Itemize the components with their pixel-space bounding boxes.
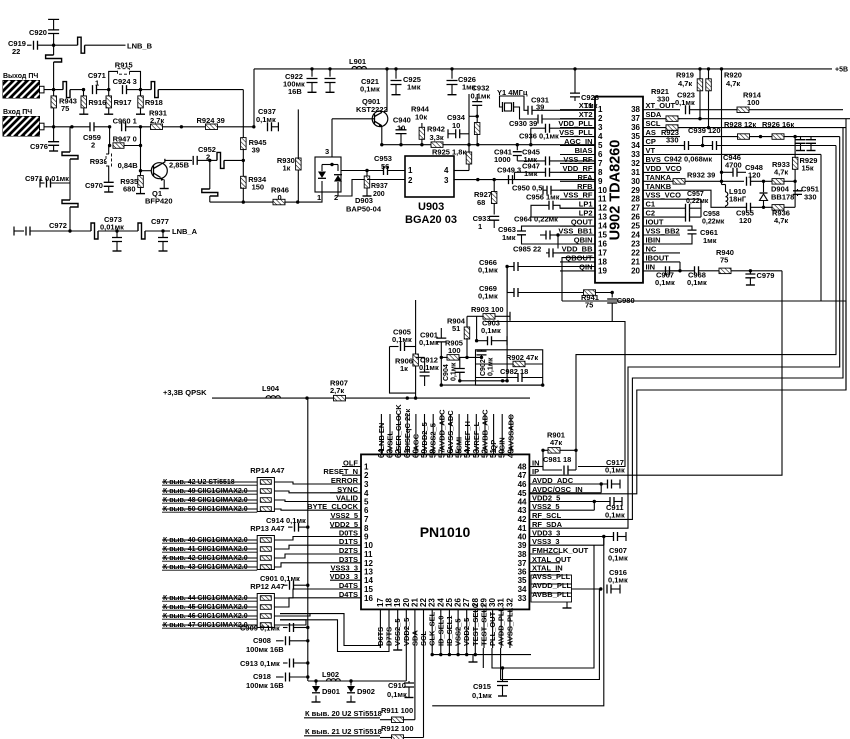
stripline jog <box>63 82 70 98</box>
svg-text:C930 39: C930 39 <box>509 119 537 128</box>
node AGC dots <box>467 143 470 146</box>
svg-text:51: 51 <box>452 324 460 333</box>
svg-text:1: 1 <box>364 463 369 472</box>
svg-text:C939 120: C939 120 <box>688 126 721 135</box>
svg-text:12: 12 <box>598 204 607 213</box>
svg-text:23: 23 <box>631 240 640 249</box>
svg-text:VDD_BB: VDD_BB <box>562 244 593 253</box>
svg-text:1000: 1000 <box>494 155 511 164</box>
svg-text:10: 10 <box>364 541 373 550</box>
SDA column down <box>414 648 416 720</box>
svg-text:100мк 16В: 100мк 16В <box>246 681 284 690</box>
svg-text:34: 34 <box>518 585 527 594</box>
svg-text:10к: 10к <box>415 113 427 122</box>
svg-text:0,1мк: 0,1мк <box>488 357 495 376</box>
svg-text:C920: C920 <box>29 28 47 37</box>
svg-text:2: 2 <box>598 114 603 123</box>
RP12 wires to bottom pins <box>274 614 310 616</box>
wire LNB_B branch down <box>53 45 55 55</box>
svg-text:0,1мк: 0,1мк <box>360 85 380 94</box>
AVDC/OSC_IN row <box>529 492 601 494</box>
node LNB_B junction <box>52 44 55 47</box>
bus vertical R926 row <box>529 137 839 529</box>
svg-text:0,1мк: 0,1мк <box>608 576 628 585</box>
capacitor C972 <box>14 230 24 232</box>
svg-text:16В: 16В <box>288 87 302 96</box>
svg-text:150: 150 <box>252 183 265 192</box>
svg-text:9: 9 <box>364 533 369 542</box>
svg-text:IBIN: IBIN <box>646 236 661 245</box>
svg-text:0,1мк: 0,1мк <box>451 362 458 381</box>
svg-text:0,1мк: 0,1мк <box>419 363 439 372</box>
svg-text:R911 100: R911 100 <box>381 706 413 715</box>
svg-text:QOUT: QOUT <box>571 218 593 227</box>
svg-text:48: 48 <box>518 463 527 472</box>
D903 pin2 wire <box>338 180 367 197</box>
svg-text:41: 41 <box>518 524 527 533</box>
SCL column down <box>423 648 425 738</box>
svg-text:C957: C957 <box>687 191 704 198</box>
svg-text:RP13 A47: RP13 A47 <box>250 524 284 533</box>
svg-text:AVBB_PLL: AVBB_PLL <box>532 590 571 599</box>
svg-text:C960 1: C960 1 <box>113 117 137 126</box>
svg-text:1к: 1к <box>283 164 291 173</box>
svg-text:100: 100 <box>448 346 461 355</box>
svg-text:18: 18 <box>385 598 394 607</box>
wire AGC row <box>382 144 595 146</box>
svg-text:12: 12 <box>364 559 373 568</box>
svg-text:26: 26 <box>631 213 640 222</box>
svg-text:2: 2 <box>91 141 95 150</box>
Q901 base to D903 pin3 <box>332 118 375 120</box>
svg-text:LP1: LP1 <box>579 200 593 209</box>
svg-text:R912 100: R912 100 <box>381 724 414 733</box>
svg-text:10: 10 <box>452 121 460 130</box>
svg-text:14: 14 <box>364 576 373 585</box>
svg-text:22: 22 <box>12 47 20 56</box>
svg-text:C909 0,1мк: C909 0,1мк <box>240 624 280 633</box>
svg-text:R947 0: R947 0 <box>113 135 137 144</box>
wire output row <box>44 89 63 91</box>
wire rail to input row <box>253 69 255 127</box>
svg-text:6: 6 <box>598 150 603 159</box>
svg-text:IBOUT: IBOUT <box>646 253 670 262</box>
svg-text:XT2: XT2 <box>579 110 593 119</box>
svg-text:L902: L902 <box>322 670 339 679</box>
svg-text:RFA: RFA <box>578 173 594 182</box>
svg-text:15: 15 <box>598 231 607 240</box>
svg-text:RFB: RFB <box>577 182 593 191</box>
L902 row <box>308 680 406 682</box>
svg-text:1: 1 <box>478 222 482 231</box>
svg-text:35: 35 <box>518 576 527 585</box>
svg-text:IIN: IIN <box>646 262 656 271</box>
resistor below C932 <box>474 123 480 135</box>
svg-text:30: 30 <box>631 177 640 186</box>
svg-text:11: 11 <box>364 550 373 559</box>
line y705.8 <box>432 537 604 706</box>
bus vertical SCL <box>529 128 843 520</box>
capacitor to ground right 1 <box>800 137 802 139</box>
svg-text:330: 330 <box>666 136 679 145</box>
wire y393 <box>390 347 416 394</box>
svg-text:13: 13 <box>364 568 373 577</box>
svg-text:44: 44 <box>518 498 527 507</box>
svg-text:R917: R917 <box>114 98 132 107</box>
svg-text:VSS_BB1: VSS_BB1 <box>558 227 592 236</box>
svg-text:C910: C910 <box>388 681 406 690</box>
lower tank rail <box>726 206 747 208</box>
svg-text:TANKB: TANKB <box>646 182 672 191</box>
svg-text:C918: C918 <box>253 672 271 681</box>
svg-text:К выв. 20 U2 STi5518: К выв. 20 U2 STi5518 <box>305 709 382 718</box>
svg-text:R903 100: R903 100 <box>471 305 504 314</box>
svg-text:C915: C915 <box>473 682 491 691</box>
svg-text:4,7к: 4,7к <box>678 79 692 88</box>
svg-text:100: 100 <box>747 98 760 107</box>
svg-text:Вход ПЧ: Вход ПЧ <box>3 109 32 116</box>
D903 pin1 to R946 row <box>298 192 322 202</box>
svg-text:75: 75 <box>720 256 728 265</box>
svg-text:L901: L901 <box>349 57 366 66</box>
svg-text:C942 0,068мк: C942 0,068мк <box>664 155 712 164</box>
bus horizontal h2 <box>529 301 846 494</box>
svg-text:8: 8 <box>598 168 603 177</box>
svg-text:R925 1,8к: R925 1,8к <box>432 148 466 157</box>
svg-text:0,1мк: 0,1мк <box>605 466 625 475</box>
wire y380.8 <box>460 380 507 382</box>
svg-text:0,1мк: 0,1мк <box>478 292 498 301</box>
svg-text:RF_SDA: RF_SDA <box>532 520 563 529</box>
svg-text:C958: C958 <box>703 211 720 218</box>
svg-text:R938: R938 <box>90 157 108 166</box>
svg-text:C913 0,1мк: C913 0,1мк <box>240 659 280 668</box>
svg-text:0,84В: 0,84В <box>118 161 139 170</box>
VDD2_5 column to L902 row <box>405 648 407 681</box>
pin19 gnd <box>397 648 399 650</box>
svg-text:5: 5 <box>598 141 603 150</box>
svg-text:R932 39: R932 39 <box>687 171 715 180</box>
IC PN1010 <box>361 454 529 609</box>
svg-text:TANKA: TANKA <box>646 173 672 182</box>
svg-text:1мк: 1мк <box>524 169 538 178</box>
stripline jog <box>117 230 138 232</box>
svg-text:SDA: SDA <box>646 110 662 119</box>
svg-text:PN1010: PN1010 <box>420 524 471 540</box>
svg-text:0,1мк: 0,1мк <box>687 278 707 287</box>
svg-text:RF_SCL: RF_SCL <box>532 511 562 520</box>
RP wrap wires to pins 17/18 <box>280 614 380 648</box>
wire U903 pin2 <box>367 179 405 181</box>
svg-text:3: 3 <box>598 123 603 132</box>
svg-text:100мк 16В: 100мк 16В <box>246 645 284 654</box>
svg-text:19: 19 <box>598 266 607 275</box>
RP12 wires to pins <box>274 589 330 598</box>
wire y385.1 <box>441 384 542 386</box>
svg-text:11: 11 <box>598 195 607 204</box>
svg-text:VSS_VCO: VSS_VCO <box>646 191 682 200</box>
svg-text:1мк: 1мк <box>407 83 421 92</box>
svg-text:C949 3: C949 3 <box>497 166 521 175</box>
diode D903a <box>321 165 323 172</box>
capacitor to ground right 2 <box>810 137 812 139</box>
svg-text:25: 25 <box>631 222 640 231</box>
Q901 emitter to AGC row <box>381 126 383 145</box>
svg-text:U903: U903 <box>418 201 444 213</box>
svg-text:1мк: 1мк <box>703 236 717 245</box>
wire to LNB_A <box>163 230 170 232</box>
Q1 emitter to ground <box>163 180 165 189</box>
svg-text:2,7к: 2,7к <box>330 386 344 395</box>
svg-text:0,1мк: 0,1мк <box>655 278 675 287</box>
svg-text:C924 3: C924 3 <box>113 77 137 86</box>
svg-text:680: 680 <box>123 185 136 194</box>
svg-text:200: 200 <box>373 191 385 198</box>
svg-text:RP12 A47: RP12 A47 <box>250 582 284 591</box>
svg-text:32: 32 <box>505 598 514 607</box>
svg-text:0,01мк: 0,01мк <box>100 223 124 232</box>
svg-text:68: 68 <box>477 198 485 207</box>
svg-text:7: 7 <box>364 515 369 524</box>
svg-text:C977: C977 <box>151 217 169 226</box>
svg-text:IOUT: IOUT <box>646 218 664 227</box>
bus IIN to IP <box>529 271 782 475</box>
svg-text:AVDD_PLL: AVDD_PLL <box>532 581 571 590</box>
ground below PLL box <box>566 602 568 608</box>
svg-text:+5В: +5В <box>835 67 848 74</box>
svg-text:0,1мк: 0,1мк <box>419 338 439 347</box>
svg-text:15: 15 <box>364 585 373 594</box>
svg-text:R918: R918 <box>145 98 163 107</box>
svg-text:VSS_PLL: VSS_PLL <box>559 128 593 137</box>
svg-text:C982 18: C982 18 <box>500 367 528 376</box>
svg-text:4: 4 <box>598 132 603 141</box>
svg-text:0,1мк: 0,1мк <box>481 326 501 335</box>
svg-text:28: 28 <box>631 195 640 204</box>
svg-text:31: 31 <box>497 598 506 607</box>
svg-text:C976: C976 <box>30 142 48 151</box>
stripline jog <box>78 37 85 53</box>
svg-text:9: 9 <box>598 177 603 186</box>
svg-text:+3,3В QPSK: +3,3В QPSK <box>163 388 207 397</box>
svg-text:R915: R915 <box>115 61 133 70</box>
svg-text:QBIN: QBIN <box>574 236 593 245</box>
wire +5V top rail <box>254 68 832 70</box>
svg-text:BAP50-04: BAP50-04 <box>346 205 382 214</box>
svg-text:Выход ПЧ: Выход ПЧ <box>3 73 38 80</box>
svg-text:33: 33 <box>631 150 640 159</box>
wire U903 pin3 row <box>454 179 595 181</box>
svg-text:U902 TDA8260: U902 TDA8260 <box>608 140 624 241</box>
svg-text:4: 4 <box>364 489 369 498</box>
svg-text:4,7к: 4,7к <box>726 79 740 88</box>
svg-text:0,1мк: 0,1мк <box>387 690 407 699</box>
+5V drop to VDD_VCO <box>720 67 723 70</box>
svg-text:27: 27 <box>631 204 640 213</box>
svg-text:39: 39 <box>252 146 260 155</box>
RP14 wires to pins <box>274 482 342 484</box>
svg-text:IP: IP <box>532 467 539 476</box>
svg-text:330: 330 <box>657 95 670 104</box>
svg-text:16: 16 <box>364 594 373 603</box>
svg-text:C902: C902 <box>480 359 487 376</box>
svg-text:2: 2 <box>364 471 369 480</box>
wire U903 pin4 <box>454 170 469 172</box>
svg-text:8: 8 <box>364 524 369 533</box>
svg-text:KST2222: KST2222 <box>356 105 388 114</box>
svg-text:C979: C979 <box>757 271 775 280</box>
svg-text:24: 24 <box>631 231 640 240</box>
svg-text:RP14 A47: RP14 A47 <box>250 466 284 475</box>
VSS_VCO row <box>680 198 701 200</box>
diode D903b <box>337 165 339 172</box>
svg-text:21: 21 <box>631 257 640 266</box>
svg-text:0,22мк: 0,22мк <box>702 219 725 226</box>
svg-text:33: 33 <box>518 594 527 603</box>
svg-text:5: 5 <box>364 498 369 507</box>
svg-text:39: 39 <box>518 541 527 550</box>
svg-text:1к: 1к <box>400 364 408 373</box>
3.3V rail down <box>307 398 309 681</box>
svg-text:QIN: QIN <box>579 262 592 271</box>
svg-text:C936 0,1мк: C936 0,1мк <box>519 132 559 141</box>
svg-text:37: 37 <box>518 559 527 568</box>
svg-text:VSS_RF: VSS_RF <box>563 155 593 164</box>
svg-text:C956 1мк: C956 1мк <box>526 193 560 202</box>
stripline jog <box>210 159 217 161</box>
stripline jog <box>141 89 152 91</box>
svg-text:C908: C908 <box>253 636 271 645</box>
svg-text:AVSS_PLL: AVSS_PLL <box>532 572 571 581</box>
svg-text:LNB_A: LNB_A <box>172 227 198 236</box>
svg-text:R926 16к: R926 16к <box>762 120 794 129</box>
svg-text:0,1мк: 0,1мк <box>392 335 412 344</box>
stripline jog <box>70 230 91 232</box>
svg-text:C985 22: C985 22 <box>513 245 541 254</box>
svg-text:CP: CP <box>646 137 656 146</box>
svg-text:36: 36 <box>518 568 527 577</box>
svg-text:C972: C972 <box>49 221 67 230</box>
svg-text:38: 38 <box>631 105 640 114</box>
svg-text:D902: D902 <box>357 687 375 696</box>
svg-text:C981 18: C981 18 <box>543 455 571 464</box>
svg-text:C914 0,1мк: C914 0,1мк <box>266 516 306 525</box>
bus vertical SDA <box>845 119 847 390</box>
svg-text:38: 38 <box>518 550 527 559</box>
svg-text:0,1мк: 0,1мк <box>605 511 625 520</box>
svg-text:37: 37 <box>631 114 640 123</box>
bus C980 row <box>485 322 625 467</box>
svg-text:10: 10 <box>598 186 607 195</box>
bus vertical CP row <box>576 146 836 451</box>
wire crystal to XT1 via C931 <box>500 96 529 110</box>
svg-text:VDD_RF: VDD_RF <box>562 164 592 173</box>
svg-text:75: 75 <box>585 301 593 310</box>
svg-text:SCL: SCL <box>646 119 661 128</box>
svg-text:C1: C1 <box>646 200 656 209</box>
svg-text:47: 47 <box>518 471 527 480</box>
svg-text:35: 35 <box>631 132 640 141</box>
wire to LNB_B <box>54 44 78 46</box>
svg-text:VDD_VCO: VDD_VCO <box>646 164 682 173</box>
svg-text:0,1мк: 0,1мк <box>608 554 628 563</box>
svg-text:0,1мк: 0,1мк <box>478 266 498 275</box>
svg-text:VSS_BB2: VSS_BB2 <box>646 227 680 236</box>
bus vertical VT row <box>820 154 822 301</box>
svg-text:22: 22 <box>419 598 428 607</box>
svg-text:75: 75 <box>61 104 69 113</box>
wire output row long <box>158 89 243 91</box>
svg-text:45: 45 <box>518 489 527 498</box>
op-amp U903 BGA20 03 <box>405 156 454 197</box>
svg-text:C970: C970 <box>85 181 103 190</box>
svg-text:34: 34 <box>631 141 640 150</box>
svg-text:L904: L904 <box>262 384 280 393</box>
svg-text:14: 14 <box>598 222 607 231</box>
svg-text:AGC_IN: AGC_IN <box>564 137 592 146</box>
svg-text:0,1мк: 0,1мк <box>256 115 276 124</box>
svg-text:3: 3 <box>364 480 369 489</box>
svg-text:36: 36 <box>631 123 640 132</box>
svg-text:VDD_PLL: VDD_PLL <box>558 119 593 128</box>
svg-text:47к: 47к <box>550 438 562 447</box>
svg-text:43: 43 <box>518 506 527 515</box>
svg-text:R902 47к: R902 47к <box>506 353 538 362</box>
wire crystal to XT2 via C930 <box>514 107 539 119</box>
bottom gnd bus <box>432 654 531 656</box>
svg-text:LNB_B: LNB_B <box>127 42 153 51</box>
svg-text:1мк: 1мк <box>502 233 516 242</box>
svg-text:VT: VT <box>646 146 656 155</box>
svg-text:32: 32 <box>631 159 640 168</box>
svg-text:6: 6 <box>364 506 369 515</box>
svg-text:R928 12к: R928 12к <box>724 120 756 129</box>
svg-text:18нГ: 18нГ <box>729 195 747 204</box>
svg-text:120: 120 <box>739 216 752 225</box>
line y668 to C915 <box>492 545 594 668</box>
svg-text:R937: R937 <box>371 183 388 190</box>
svg-text:15к: 15к <box>802 164 814 173</box>
svg-text:C950 0,5: C950 0,5 <box>512 184 542 193</box>
IC U902 TDA8260 <box>595 97 643 283</box>
svg-text:0,1мк: 0,1мк <box>471 92 491 101</box>
svg-text:1: 1 <box>408 166 413 175</box>
svg-text:1мк: 1мк <box>584 101 598 110</box>
svg-text:16: 16 <box>598 240 607 249</box>
svg-text:C964 0,22мк: C964 0,22мк <box>514 215 558 224</box>
svg-text:4: 4 <box>444 166 449 175</box>
svg-text:BIAS: BIAS <box>575 146 593 155</box>
QIN drop to GIN <box>506 267 508 381</box>
QBOUT wire down <box>562 258 595 301</box>
svg-text:BGA20 03: BGA20 03 <box>405 214 457 226</box>
svg-text:D901: D901 <box>322 687 340 696</box>
left rail with jogs <box>69 127 71 152</box>
svg-text:VSS_RF: VSS_RF <box>563 191 593 200</box>
svg-text:0,1мк: 0,1мк <box>472 691 492 700</box>
svg-text:C904: C904 <box>443 364 450 381</box>
svg-text:22: 22 <box>631 248 640 257</box>
RP13 wires to pins <box>274 537 330 541</box>
svg-text:QBOUT: QBOUT <box>565 253 593 262</box>
svg-text:25: 25 <box>445 598 454 607</box>
svg-text:17: 17 <box>598 248 607 257</box>
svg-text:20: 20 <box>631 266 640 275</box>
wire down with jog <box>209 160 211 189</box>
svg-text:AS: AS <box>646 128 656 137</box>
pins 28-32 wires <box>482 648 484 668</box>
wire input row <box>44 126 90 128</box>
